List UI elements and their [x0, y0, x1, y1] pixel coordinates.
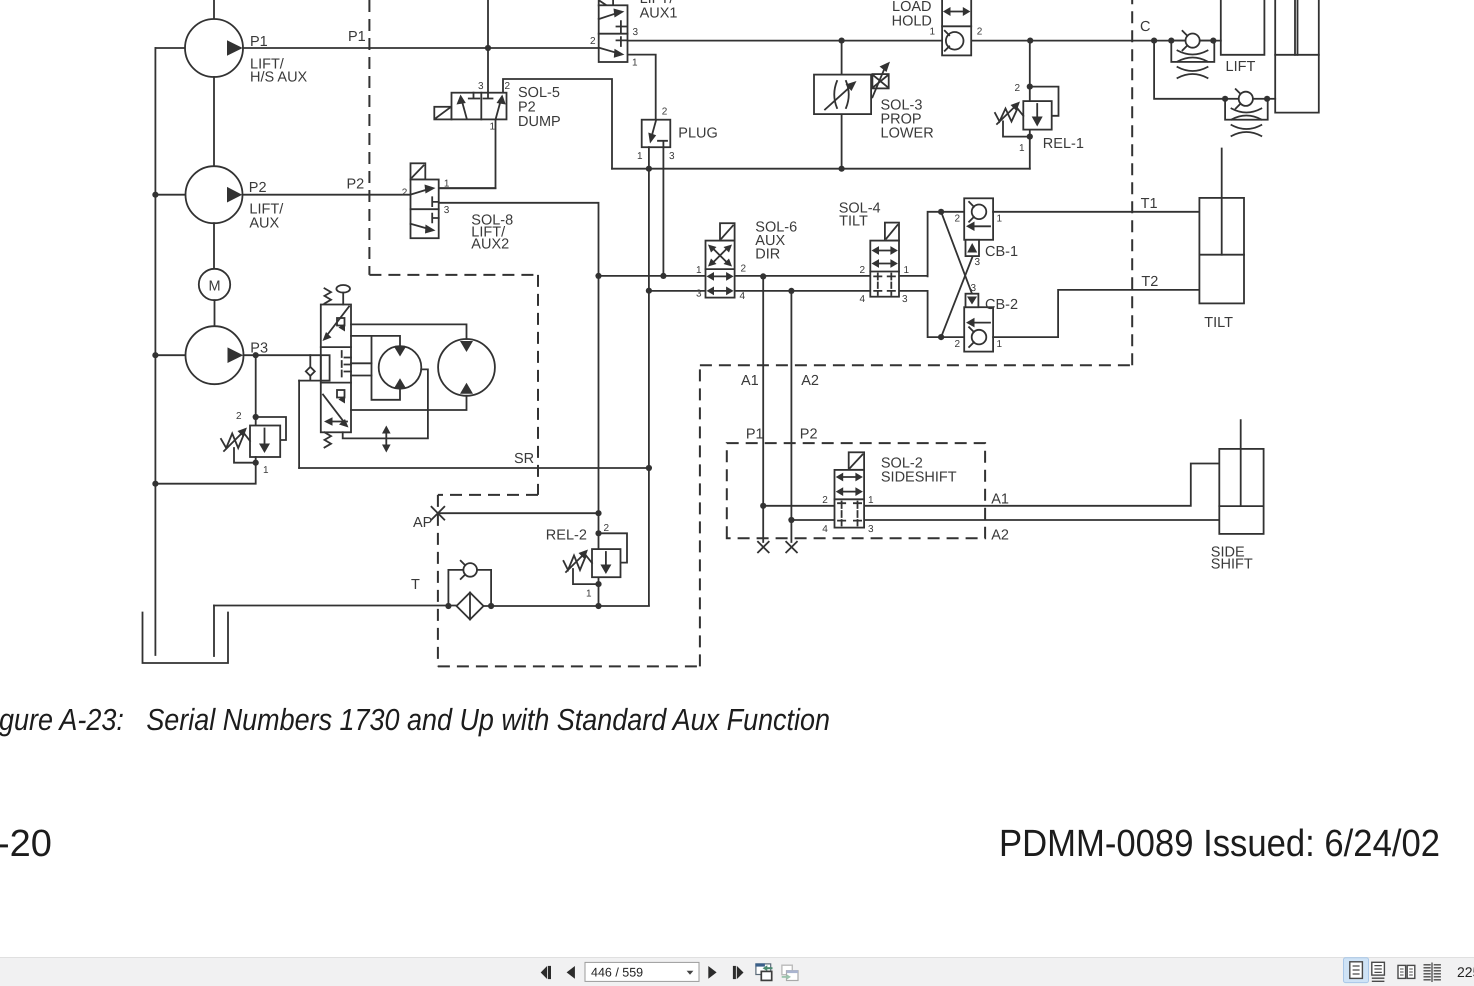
wire P3 relief pilot	[234, 448, 256, 463]
manifold right vertical x=1132	[1131, 0, 1133, 365]
wire SOL-5 port2 to y169 line	[503, 79, 612, 169]
wire pump shaft P1 top	[213, 0, 215, 19]
pump P2	[186, 166, 243, 223]
node REL-1 tap	[1027, 38, 1033, 44]
svg-text:DIR: DIR	[755, 246, 780, 262]
svg-text:T2: T2	[1141, 274, 1158, 290]
pump P1	[185, 19, 243, 77]
svg-text:P2: P2	[800, 427, 818, 443]
next page button	[708, 966, 716, 979]
svg-text:3: 3	[478, 81, 484, 92]
svg-text:-20: -20	[0, 823, 52, 865]
node P3 relief port2	[253, 414, 259, 420]
node filter right	[488, 603, 494, 609]
valve SOL-3	[814, 75, 871, 115]
wire cross pilot B	[941, 258, 972, 338]
node P1 / SOL-5 tap	[485, 45, 491, 51]
wire steer SR drop	[298, 381, 300, 468]
wire P3 supply	[244, 354, 321, 356]
svg-text:1: 1	[997, 339, 1003, 350]
solenoid SOL-5	[434, 107, 451, 120]
label SOL-8 name	[471, 213, 513, 253]
node SOL-3 tap	[839, 38, 845, 44]
svg-text:PDMM-0089 Issued: 6/24/02: PDMM-0089 Issued: 6/24/02	[999, 823, 1440, 865]
svg-text:SHIFT: SHIFT	[1211, 557, 1253, 573]
next view button (disabled)	[782, 965, 798, 980]
velocity fuse 1	[1171, 31, 1214, 78]
svg-text:2: 2	[955, 339, 961, 350]
label SOL-2 name	[881, 456, 957, 486]
node CB1 left	[938, 209, 944, 215]
label SOL-6 name	[755, 220, 797, 263]
wire A2 drop	[790, 291, 792, 542]
wire shaft M-P3	[214, 300, 216, 326]
wire REL-1 bypass	[1030, 87, 1059, 116]
svg-text:SIDESHIFT: SIDESHIFT	[881, 470, 957, 486]
svg-text:2: 2	[236, 411, 242, 422]
wire P1 line after LOAD HOLD	[971, 40, 1221, 42]
svg-text:1: 1	[1019, 143, 1025, 154]
wire SOL-1 port1 to PLUG	[628, 55, 656, 120]
steering wheel	[336, 285, 350, 305]
svg-text:LOWER: LOWER	[881, 126, 934, 142]
spring steer top	[325, 288, 332, 303]
node C branch	[1151, 38, 1157, 44]
wire T return into tank	[213, 606, 215, 657]
wire motor2 bottom return	[351, 396, 467, 410]
label REL-1 ports	[1015, 83, 1026, 154]
solenoid SOL-1 (cut at top)	[599, 0, 613, 5]
velocity fuse 2	[1225, 89, 1268, 136]
svg-text:2: 2	[955, 214, 961, 225]
node SR-PLUG1	[646, 465, 652, 471]
wire REL-2 bypass	[599, 533, 628, 562]
node SOL-2 P2	[788, 517, 794, 523]
node fuse1 left	[1168, 38, 1174, 44]
spring steer bottom	[325, 432, 332, 447]
svg-text:2: 2	[604, 523, 610, 534]
arrow P3 relief adjust	[224, 428, 247, 452]
filter	[457, 593, 484, 620]
wire P3 suction stub	[155, 354, 185, 356]
cylinder LIFT right	[1275, 0, 1319, 113]
node fuse2 left	[1222, 96, 1228, 102]
valve SOL-4	[870, 241, 899, 297]
node fuse1 right	[1210, 38, 1216, 44]
wire PLUG port3 drop	[662, 147, 664, 276]
svg-text:P2: P2	[249, 180, 267, 196]
wire P1 supply	[243, 47, 599, 49]
svg-text:1: 1	[696, 265, 702, 276]
label SOL-5 ports	[478, 81, 511, 133]
cylinder SIDE SHIFT	[1219, 420, 1263, 534]
first page button	[541, 966, 551, 979]
symbol A1 plug X	[758, 542, 769, 553]
wire T2	[993, 290, 1199, 337]
wire SOL-2 port2 feed	[763, 505, 834, 507]
valve REL-2	[592, 549, 621, 577]
valve SOL-6	[706, 241, 735, 298]
wire SR line	[299, 467, 649, 469]
wire pilot line y=169	[612, 168, 1030, 170]
spring P3 relief	[221, 434, 250, 449]
svg-text:P1: P1	[746, 427, 764, 443]
wire REL-1 pilot	[1003, 121, 1030, 136]
wire steer bottom loop	[343, 369, 428, 438]
page number box	[585, 962, 699, 981]
svg-text:P2: P2	[347, 177, 365, 193]
svg-text:3: 3	[696, 289, 702, 300]
node PLUG3 y276	[660, 273, 666, 279]
power unit box right edge	[699, 365, 701, 666]
manifold bottom edge y=365	[700, 364, 1132, 366]
valve PLUG	[642, 120, 671, 148]
svg-text:4: 4	[740, 291, 746, 302]
check steer bypass diamond	[306, 367, 315, 376]
svg-text:A1: A1	[991, 492, 1009, 508]
svg-text:T1: T1	[1141, 196, 1158, 212]
continuous view button	[1372, 962, 1385, 981]
label P3 relief ports	[236, 411, 269, 476]
svg-text:T: T	[411, 577, 420, 593]
wire PLUG port1 long drop	[648, 147, 650, 605]
node A2 tap	[788, 288, 794, 294]
wire P3 relief bypass	[256, 417, 286, 440]
svg-text:3: 3	[971, 283, 977, 294]
svg-text:3: 3	[868, 524, 874, 535]
valve SOL-2	[835, 470, 865, 528]
svg-text:M: M	[208, 279, 220, 295]
svg-text:3: 3	[975, 257, 981, 268]
label SOL-2 ports	[822, 495, 874, 535]
power unit box top edge	[438, 494, 538, 496]
svg-text:A1: A1	[741, 373, 759, 389]
svg-text:1: 1	[997, 214, 1003, 225]
valve SOL-8	[411, 180, 439, 239]
node PLUG1 y290	[646, 288, 652, 294]
solenoid SOL-3	[872, 62, 890, 98]
node PLUG line y169	[646, 166, 652, 172]
svg-text:2: 2	[505, 81, 511, 92]
valve steering control	[321, 305, 351, 433]
solenoid SOL-6	[720, 223, 735, 240]
arrow REL-2 adjust	[566, 550, 588, 573]
svg-text:2: 2	[860, 265, 866, 276]
wire shaft P1-P2	[213, 77, 215, 166]
svg-text:4: 4	[822, 524, 828, 535]
wire steer to motor1 bottom	[372, 336, 401, 400]
node SOL8 drop y276	[595, 273, 601, 279]
svg-text:1: 1	[904, 265, 910, 276]
svg-text:1: 1	[637, 151, 643, 162]
symbol A2 plug X	[786, 542, 797, 553]
node P3 relief port1	[253, 460, 259, 466]
pump P3	[186, 326, 244, 384]
wire shaft P2-M	[213, 223, 215, 269]
svg-text:2: 2	[1015, 83, 1021, 94]
label REL-2 ports	[586, 523, 610, 600]
node suction-relief return	[152, 481, 158, 487]
wire P2 suction stub	[155, 194, 185, 196]
single page view button (selected)	[1344, 958, 1369, 983]
wire T line	[214, 605, 649, 608]
svg-text:2: 2	[822, 495, 828, 506]
node REL-2 port1	[595, 581, 601, 587]
label CB-1 ports	[955, 214, 1003, 269]
label SOL-1 name	[640, 0, 678, 22]
svg-text:CB-2: CB-2	[985, 297, 1018, 313]
wire P1 suction stub	[155, 47, 185, 49]
wire REL-1 riser	[1029, 41, 1031, 169]
svg-text:A2: A2	[801, 373, 819, 389]
node REL-1 port2	[1027, 84, 1033, 90]
wire A1 work line	[864, 464, 1219, 506]
wire steer check branch	[309, 355, 311, 380]
svg-text:2: 2	[977, 27, 983, 38]
label pump P1	[250, 34, 308, 86]
svg-text:REL-1: REL-1	[1043, 136, 1084, 152]
prev view button	[755, 963, 772, 980]
cylinder TILT	[1199, 149, 1244, 304]
valve P3 relief	[250, 426, 280, 458]
svg-text:1: 1	[586, 589, 592, 600]
label SOL-4 ports	[860, 265, 910, 305]
node AP-REL2	[595, 510, 601, 516]
node REL-2 port2	[595, 530, 601, 536]
wire SOL-2 port4 feed	[791, 519, 834, 521]
svg-text:CB-1: CB-1	[985, 244, 1018, 260]
solenoid SOL-4	[885, 223, 899, 241]
svg-text:2: 2	[741, 264, 747, 275]
svg-text:1: 1	[632, 58, 638, 69]
svg-text:TILT: TILT	[839, 213, 868, 229]
node REL-1 port1	[1027, 134, 1033, 140]
wire suction line vertical	[154, 48, 156, 655]
power unit box bottom edge	[438, 665, 700, 667]
label SOL-6 ports	[696, 264, 747, 303]
svg-text:2: 2	[662, 107, 668, 118]
wire AB line y=291	[649, 290, 928, 292]
svg-text:225: 225	[1457, 964, 1474, 980]
spring REL-1	[995, 109, 1023, 122]
wire SOL-3 riser	[841, 41, 843, 169]
svg-text:AUX: AUX	[249, 216, 279, 232]
svg-text:DUMP: DUMP	[518, 114, 561, 130]
svg-text:P1: P1	[348, 29, 366, 45]
wire SOL-4 port1 to CB1	[928, 212, 965, 277]
node suction-P2	[152, 192, 158, 198]
label SIDE SHIFT	[1211, 545, 1253, 573]
node A1 tap	[760, 273, 766, 279]
label SOL-3 name	[881, 98, 934, 142]
svg-text:446 / 559: 446 / 559	[591, 966, 643, 980]
svg-text:LIFT: LIFT	[1226, 59, 1256, 75]
valve SOL-1	[599, 5, 628, 62]
svg-text:SR: SR	[514, 451, 534, 467]
svg-text:H/S AUX: H/S AUX	[250, 70, 308, 86]
wire T1	[993, 211, 1199, 213]
wire P2 supply	[243, 194, 411, 196]
facing view button	[1398, 965, 1415, 978]
last page button	[733, 966, 744, 979]
label SOL-8 ports	[402, 179, 450, 217]
sideshift manifold dashed box	[727, 443, 985, 538]
wire SOL-8 port3 long drop	[439, 203, 599, 606]
node P3 relief tap	[253, 352, 259, 358]
motor steer 2	[438, 339, 495, 396]
svg-text:3: 3	[669, 151, 675, 162]
svg-text:1: 1	[490, 122, 496, 133]
symbol AP plugged X	[432, 507, 445, 520]
svg-text:HOLD: HOLD	[892, 14, 932, 30]
svg-text:2: 2	[402, 188, 408, 199]
label PLUG ports	[637, 107, 675, 163]
label SOL-4 name	[839, 201, 881, 230]
prev page button	[567, 966, 575, 979]
svg-text:3: 3	[444, 205, 450, 216]
check CB-2	[964, 294, 993, 352]
svg-text:C: C	[1140, 19, 1150, 35]
svg-text:4: 4	[860, 294, 866, 305]
wire SOL-5 riser	[487, 0, 489, 93]
manifold boundary SR vertical x=538	[537, 275, 539, 495]
manifold boundary horizontal y=275	[369, 274, 538, 276]
wire steer to motor1 top	[351, 336, 400, 346]
node fuse2 right	[1264, 96, 1270, 102]
check filter bypass	[448, 561, 491, 606]
svg-text:3: 3	[633, 27, 639, 38]
svg-text:PLUG: PLUG	[678, 126, 718, 142]
svg-text:TILT: TILT	[1204, 315, 1233, 331]
wire A2 work line	[864, 519, 1219, 521]
wire SOL-5 port1 drop	[439, 119, 496, 188]
wire SOL-8 port1	[439, 187, 496, 189]
node SOL-2 P1	[760, 503, 766, 509]
wire A1 drop	[762, 276, 764, 542]
svg-text:gure A-23: Serial Numbers 17: gure A-23: Serial Numbers 1730 and Up wi…	[0, 703, 830, 737]
spring REL-2	[564, 556, 593, 571]
label pump P2	[249, 180, 284, 232]
wire fuse2 to cylinder	[1268, 98, 1276, 100]
wire cross pilot A	[941, 212, 972, 294]
node filter left	[445, 603, 451, 609]
solenoid SOL-8	[411, 163, 426, 179]
svg-text:REL-2: REL-2	[546, 528, 587, 544]
svg-text:1: 1	[444, 179, 450, 190]
motor steer 1	[379, 346, 422, 389]
node suction-P3	[152, 352, 158, 358]
svg-text:A2: A2	[991, 528, 1009, 544]
arrow REL-1 adjust	[997, 102, 1020, 125]
wire P3 relief riser	[255, 355, 257, 425]
label LOAD-HOLD ports	[930, 27, 983, 38]
check CB-1	[964, 198, 993, 256]
wire P1 line after SOL-1	[628, 40, 943, 42]
node SOL-3 bottom y169	[839, 166, 845, 172]
power unit box left edge	[437, 495, 439, 667]
svg-text:1: 1	[263, 465, 269, 476]
label SOL-5 name	[518, 85, 561, 130]
valve SOL-5	[452, 93, 507, 120]
wire SOL-4 port3 to CB2	[928, 291, 965, 337]
wire AP line	[438, 512, 599, 514]
svg-text:AUX2: AUX2	[471, 237, 509, 253]
svg-text:AP: AP	[413, 515, 432, 531]
wire steer lower port	[299, 380, 330, 382]
svg-text:3: 3	[902, 294, 908, 305]
cylinder LIFT left	[1221, 0, 1265, 55]
manifold boundary left vertical	[368, 0, 370, 275]
svg-text:2: 2	[590, 36, 596, 47]
valve LOAD-HOLD	[942, 0, 971, 55]
node T-REL2	[595, 603, 601, 609]
svg-text:1: 1	[868, 495, 874, 506]
wire AB line y=276	[599, 275, 928, 277]
motor M	[199, 269, 230, 300]
wire steer to motor2 top	[351, 324, 467, 339]
label SOL-1 ports	[590, 27, 639, 69]
node CB2 left	[938, 334, 944, 340]
wire P3 relief return	[155, 457, 255, 484]
wire C branch down to lower fuse	[1154, 41, 1225, 99]
valve REL-1	[1023, 101, 1051, 130]
solenoid SOL-2	[849, 452, 864, 470]
wire steer mid stubs	[351, 363, 372, 375]
label CB-2 ports	[955, 283, 1003, 350]
continuous facing view button	[1424, 963, 1441, 983]
symbol steer double arrow	[382, 426, 391, 453]
label LOAD HOLD name	[892, 0, 932, 30]
svg-text:AUX1: AUX1	[640, 6, 678, 22]
wire REL-2 pilot	[573, 569, 599, 584]
tank reservoir	[143, 613, 229, 664]
